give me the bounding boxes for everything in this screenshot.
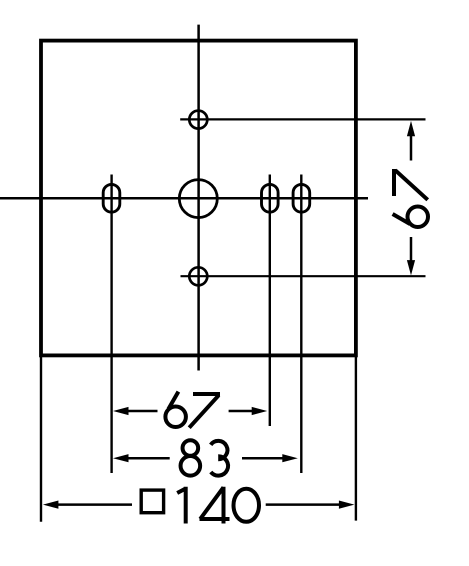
dimension 67 bottom: left arrowhead [113,407,129,415]
dimension 67 bottom: left shaft [128,410,158,413]
horizontal centerline [0,197,368,200]
dimension 67 vertical: upper shaft [410,134,413,161]
dimension 67 bottom: right arrowhead [252,407,268,415]
dimension 83: label 83 [181,440,201,475]
dimension 140: left arrowhead [43,501,59,509]
dimension 83: right arrowhead [282,454,298,462]
plate outline [41,41,356,356]
left plate-edge extension line [40,357,42,522]
dimension 67 bottom: right shaft [229,410,253,413]
bottom hole extension line [181,275,426,277]
dimension 140: left shaft [57,503,132,506]
vertical centerline [197,25,200,371]
dimension 140: right shaft [266,503,341,506]
middle slot extension line [269,175,271,427]
dimension 140: label 140 [177,487,186,524]
top hole extension line [180,118,425,120]
right slot [293,184,310,212]
right slot extension line [300,175,302,474]
left slot extension line [110,175,112,474]
dimension 67 vertical: lower shaft [410,237,413,261]
dimension 83: left shaft [128,457,170,460]
top hole [189,111,207,129]
center hole [179,180,217,218]
dimension 67 vertical: lower arrowhead [407,260,415,275]
dimension 67 vertical: upper arrowhead [407,121,415,136]
dimension 140: square symbol [141,490,163,513]
left slot [103,184,120,212]
dimension 140: right arrowhead [339,501,355,509]
dimension 67 bottom: label 67 [165,392,186,427]
dimension 83: left arrowhead [113,454,129,462]
dimension 67 vertical: label 67 rotated [393,169,428,227]
middle slot [262,184,279,212]
right plate-edge extension line [355,357,357,521]
bottom hole [189,267,207,285]
dimension 83: right shaft [242,457,284,460]
